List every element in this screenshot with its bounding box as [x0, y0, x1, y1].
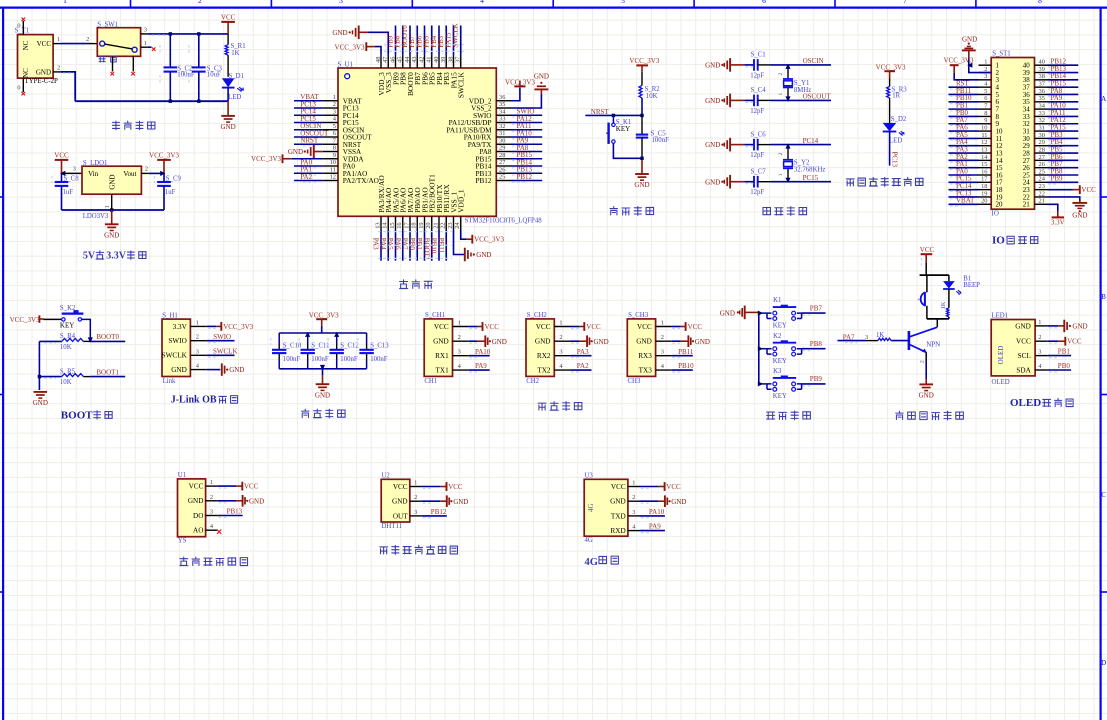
svg-text:GND: GND	[315, 391, 330, 399]
wire net PA8	[511, 151, 542, 153]
svg-text:12: 12	[330, 174, 336, 181]
capacitor C10 filter	[278, 333, 280, 344]
wire net PB10 io	[949, 101, 979, 103]
svg-text:19: 19	[981, 190, 987, 197]
svg-text:3: 3	[333, 108, 336, 115]
svg-text:NC: NC	[22, 68, 30, 78]
svg-text:1uF: 1uF	[63, 189, 74, 196]
pin T1 top shield	[22, 21, 24, 35]
svg-text:PA4: PA4	[379, 238, 387, 250]
svg-text:1: 1	[57, 36, 60, 43]
svg-text:3: 3	[210, 509, 213, 516]
svg-text:NRST: NRST	[300, 137, 319, 145]
svg-text:PB8: PB8	[810, 340, 823, 348]
module U1 pin 3 DO	[206, 515, 218, 517]
wire net PA10 io	[1048, 108, 1079, 110]
svg-text:3: 3	[984, 73, 987, 80]
mcu pin 31 PA10/RX	[496, 136, 511, 138]
header pin 22	[1035, 196, 1048, 198]
wire alarm bottom rail	[927, 318, 949, 320]
svg-text:GND: GND	[221, 123, 236, 131]
svg-text:12pF: 12pF	[750, 108, 764, 115]
wire SWIO jlink	[207, 340, 235, 342]
wire net PA15 io	[1048, 130, 1079, 132]
wire net PB4 io	[1048, 145, 1079, 147]
wire U3 vcc	[640, 486, 659, 488]
svg-text:2: 2	[198, 0, 202, 5]
display pin 3 SCL	[1035, 355, 1048, 357]
pin T1 bottom shield	[22, 78, 24, 92]
svg-text:27: 27	[499, 159, 506, 166]
capacitor C13 filter	[366, 333, 368, 344]
power port VCC top	[221, 21, 235, 23]
module U1 body	[178, 479, 206, 537]
mcu pin 6 OSCOUT	[323, 136, 338, 138]
header H1 body	[162, 319, 190, 376]
title chuan-kou-dian-lu	[538, 403, 546, 410]
display pin 4 SDA	[1035, 369, 1048, 371]
header H1 pin 3 SWCLK	[190, 354, 206, 356]
svg-text:13: 13	[374, 222, 381, 228]
svg-text:VCC: VCC	[221, 13, 236, 21]
wire SWCLK jlink	[207, 354, 235, 356]
header pin 18	[979, 189, 992, 191]
wire net PC14 io	[949, 189, 979, 191]
svg-text:100nF: 100nF	[311, 356, 329, 363]
svg-text:8MHz: 8MHz	[794, 87, 811, 94]
wire vout to vcc3v3	[149, 172, 164, 174]
wire net PA1 io	[949, 167, 979, 169]
wire net NRST	[294, 143, 323, 145]
mcu pin 48 VDD_3	[380, 55, 382, 68]
wire net PB0 bottom	[416, 230, 418, 261]
svg-text:5: 5	[621, 0, 625, 5]
wire net PA5 bottom	[395, 230, 397, 261]
ground GND filter	[316, 383, 330, 385]
capacitor C5	[641, 115, 643, 134]
svg-text:41: 41	[426, 57, 433, 63]
svg-text:16: 16	[396, 222, 403, 228]
svg-text:S_R5: S_R5	[60, 369, 76, 376]
wire res to base	[891, 340, 909, 342]
svg-text:8: 8	[333, 145, 336, 152]
power VCC CH1	[482, 322, 484, 331]
wire gnd jlink	[207, 369, 221, 371]
svg-text:U2: U2	[382, 473, 391, 480]
svg-text:9: 9	[333, 152, 336, 159]
ground GND mcu VSSA	[315, 151, 323, 153]
mcu U1 STM32F103C8T6 body	[338, 68, 496, 216]
mcu pin 15 PA5/AO	[395, 216, 397, 230]
svg-text:8: 8	[1038, 0, 1042, 5]
svg-text:29: 29	[499, 145, 505, 152]
wire bus to K3	[759, 383, 767, 385]
svg-text:TYPE-C-2P: TYPE-C-2P	[25, 78, 58, 85]
svg-text:15: 15	[981, 161, 987, 168]
svg-text:SWCLK: SWCLK	[452, 23, 460, 48]
title cheng-xu-yun-xing-zhi-shi-deng	[846, 179, 854, 186]
svg-text:VCC_3V3: VCC_3V3	[309, 311, 339, 319]
svg-text:BEEP: BEEP	[963, 282, 980, 289]
junction vcc-c8	[60, 171, 65, 176]
svg-text:TXD: TXD	[611, 512, 626, 520]
svg-text:2: 2	[1038, 334, 1041, 341]
svg-text:U3: U3	[585, 473, 594, 480]
capacitor C3	[198, 34, 200, 67]
wire CH2 rx PA3	[571, 355, 592, 357]
svg-text:21: 21	[432, 222, 439, 228]
svg-text:PB0: PB0	[1058, 362, 1071, 370]
wire U1 gnd	[217, 500, 236, 502]
svg-text:1K: 1K	[940, 301, 947, 309]
header CH3 pin 3 RX3	[656, 355, 672, 357]
title zhu-xin-pian	[399, 280, 407, 289]
sheet border right	[1099, 8, 1101, 720]
wire net PC13 io	[949, 196, 979, 198]
junction vout-c9	[160, 171, 165, 176]
svg-text:27: 27	[1039, 154, 1046, 161]
ground GND mcu VSS_1	[454, 230, 465, 255]
mcu pin 16 PA6/AO	[402, 216, 404, 230]
wire net PB1 io	[949, 108, 979, 110]
svg-text:1K: 1K	[876, 332, 884, 339]
svg-text:12pF: 12pF	[750, 152, 764, 159]
header pin 40	[1035, 64, 1048, 66]
wire net VBAT io	[949, 203, 979, 205]
wire net PA2	[294, 180, 323, 182]
wire net VBAT	[294, 100, 323, 102]
svg-text:100nF: 100nF	[370, 356, 388, 363]
svg-text:10: 10	[330, 159, 336, 166]
junction nrst-r2	[640, 114, 643, 117]
svg-text:GND: GND	[695, 338, 710, 346]
header CH3 pin 2 GND	[656, 340, 672, 342]
wire net PB8 io	[1048, 174, 1079, 176]
svg-text:1: 1	[333, 94, 336, 101]
wire bottom bus power	[75, 100, 228, 102]
svg-text:CH3: CH3	[628, 378, 641, 385]
svg-text:OLED: OLED	[992, 379, 1010, 386]
svg-text:S_C4: S_C4	[751, 87, 767, 94]
svg-text:100nF: 100nF	[652, 137, 670, 144]
svg-text:2: 2	[210, 494, 213, 501]
power 3.3V io pin21	[1048, 204, 1058, 211]
svg-text:PA2/TX/AO: PA2/TX/AO	[343, 177, 379, 185]
wire U1 vcc	[217, 485, 236, 487]
svg-text:TX1: TX1	[436, 367, 450, 375]
svg-text:PB12: PB12	[431, 508, 447, 516]
svg-text:A: A	[1101, 95, 1106, 103]
wire net PA11	[511, 129, 542, 131]
svg-text:PA7: PA7	[401, 238, 409, 250]
svg-text:36: 36	[499, 94, 505, 101]
svg-text:2: 2	[196, 334, 199, 341]
header CH3 body	[627, 319, 655, 377]
svg-text:38: 38	[1039, 73, 1045, 80]
svg-text:IO: IO	[992, 235, 1005, 247]
mcu pin 30 PA9/TX	[496, 143, 511, 145]
svg-text:OLED: OLED	[1010, 397, 1041, 409]
header pin 19	[979, 196, 992, 198]
wire net PB15 io	[1048, 86, 1079, 88]
svg-text:S_C8: S_C8	[64, 176, 80, 183]
svg-text:D: D	[1101, 659, 1106, 667]
svg-text:10K: 10K	[60, 344, 72, 351]
wire T1 GND down to bottom bus	[60, 72, 75, 101]
header ST1 body	[991, 58, 1034, 210]
wire D1 to GND	[227, 88, 229, 102]
svg-text:39: 39	[440, 57, 447, 63]
wire CH3 gnd	[672, 340, 681, 342]
wire net PA4 io	[949, 145, 979, 147]
svg-text:46: 46	[389, 57, 396, 63]
svg-text:KEY: KEY	[773, 322, 787, 329]
svg-text:11: 11	[330, 166, 336, 173]
svg-text:37: 37	[1039, 81, 1046, 88]
wire NRST	[585, 114, 642, 116]
svg-text:13: 13	[981, 146, 987, 153]
power VCC_3V3 jlink	[220, 322, 222, 331]
wire U3 PA9	[640, 530, 665, 532]
wire oled vcc	[1048, 340, 1058, 342]
wire U2 vcc	[421, 486, 440, 488]
svg-text:VCC: VCC	[393, 483, 408, 491]
svg-text:GND: GND	[720, 309, 735, 317]
wire net PA12	[511, 122, 542, 124]
svg-text:1R: 1R	[892, 93, 900, 100]
module U3 pin 2 GND	[628, 500, 640, 502]
wire net PB3 io	[1048, 137, 1079, 139]
header CH2 pin 4 TX2	[554, 369, 570, 371]
svg-text:18: 18	[411, 222, 418, 228]
svg-text:3.3V: 3.3V	[1051, 218, 1065, 226]
wire U3 PA10	[640, 515, 665, 517]
svg-text:SCL: SCL	[1018, 352, 1031, 360]
svg-text:VCC: VCC	[1081, 186, 1096, 194]
pin T1 2 GND	[53, 71, 60, 73]
svg-text:SWCLK: SWCLK	[457, 72, 466, 99]
wire net PB5 top	[431, 26, 433, 55]
junction c5-gnd	[640, 157, 643, 160]
wire net PC15	[294, 122, 323, 124]
header CH2 pin 2 GND	[554, 340, 570, 342]
svg-text:17: 17	[981, 176, 988, 183]
power VCC U1	[241, 482, 243, 491]
module U3 pin 4 RXD	[628, 530, 640, 532]
svg-text:GND: GND	[36, 69, 51, 77]
wire net PB8 top	[402, 26, 404, 55]
wire C4 to OSCOUT	[771, 99, 832, 101]
wire net PA6 bottom	[402, 230, 404, 261]
wire oled sda PB0	[1048, 369, 1071, 371]
junction bus-r5	[38, 375, 41, 378]
wire gnd to key bus	[745, 311, 759, 313]
crystal Y1 8MHz	[787, 65, 789, 78]
wire net PA7 io	[949, 123, 979, 125]
svg-text:2: 2	[559, 334, 562, 341]
resistor R1	[227, 34, 229, 45]
resistor R5	[39, 376, 61, 378]
header pin 7	[979, 108, 992, 110]
junction ldo gnd	[110, 208, 113, 211]
svg-text:GND: GND	[671, 498, 686, 506]
title an-jian-dian-lu	[767, 412, 775, 419]
svg-text:1: 1	[1038, 319, 1041, 326]
mcu pin 33 PA12/USB/DP	[496, 122, 511, 124]
wire alarm top rail	[920, 274, 949, 276]
wire BOOT1	[90, 376, 125, 378]
title yu-shui-jian-ce-mo-kuai	[180, 557, 188, 566]
wire BOOT0	[90, 340, 125, 342]
no-connect U1 pin4	[217, 530, 221, 534]
LED D1	[222, 78, 235, 87]
capacitor C2	[169, 34, 171, 67]
no-connect x SW1 1	[152, 47, 156, 51]
mcu pin 29 PA8	[496, 151, 511, 153]
svg-text:5: 5	[333, 123, 336, 130]
svg-text:CH1: CH1	[424, 378, 437, 385]
header pin 35	[1035, 101, 1048, 103]
header pin 28	[1035, 152, 1048, 154]
display pin 1 GND	[1035, 325, 1048, 327]
svg-text:GND: GND	[534, 72, 549, 80]
svg-text:Link: Link	[163, 378, 176, 385]
transistor Q1 NPN	[908, 331, 911, 350]
svg-text:3.3V: 3.3V	[173, 323, 188, 331]
header CH1 pin 4 TX1	[453, 369, 469, 371]
wire net PB14	[511, 165, 542, 167]
svg-text:33: 33	[499, 116, 505, 123]
wire net PC14	[294, 114, 323, 116]
svg-text:40: 40	[1039, 59, 1045, 66]
svg-text:VCC_3V3: VCC_3V3	[629, 57, 659, 65]
svg-text:VCC_3V3: VCC_3V3	[944, 57, 974, 65]
ground GND CH3	[687, 335, 689, 347]
svg-text:CH2: CH2	[526, 378, 539, 385]
wire rail to collector	[936, 319, 938, 327]
header pin 15	[979, 167, 992, 169]
svg-text:1: 1	[778, 173, 784, 176]
wire CH1 vcc	[469, 326, 478, 328]
pin T1 1 VCC	[53, 43, 60, 45]
svg-text:3: 3	[1038, 349, 1041, 356]
svg-text:12: 12	[981, 139, 987, 146]
header pin 32	[1035, 123, 1048, 125]
buzzer	[926, 275, 928, 292]
wire net PB13	[511, 172, 542, 174]
mcu pin 35 VSS_2	[496, 107, 511, 109]
LED B1 BEEP	[948, 275, 950, 281]
wire h1 vcc3v3	[207, 325, 216, 327]
svg-text:1: 1	[632, 480, 635, 487]
capacitor C12 filter	[336, 333, 338, 344]
mcu pin 7 NRST	[323, 143, 338, 145]
mcu pin 38 PA15	[453, 55, 455, 68]
svg-text:VCC_3V3: VCC_3V3	[474, 236, 504, 244]
svg-text:OUT: OUT	[393, 512, 408, 520]
sheet zone ticks left	[0, 196, 3, 198]
wire net PB10 bottom	[438, 230, 440, 261]
svg-text:TX3: TX3	[639, 367, 653, 375]
wire gnd to C4	[730, 99, 744, 101]
power VCC_3V3 mcu VDD_1	[461, 230, 466, 239]
header pin 30	[1035, 137, 1048, 139]
svg-text:19: 19	[418, 222, 425, 228]
wire net PB3 top	[445, 26, 447, 55]
svg-text:KEY: KEY	[616, 125, 630, 133]
svg-text:10uF: 10uF	[207, 72, 221, 79]
svg-text:10: 10	[981, 124, 987, 131]
wire CH1 tx PA9	[469, 369, 490, 371]
svg-text:VCC_3V3: VCC_3V3	[335, 43, 365, 51]
svg-text:23: 23	[447, 222, 454, 228]
svg-text:S_C13: S_C13	[370, 342, 389, 349]
wire net PB9 top	[395, 26, 397, 55]
header pin 29	[1035, 145, 1048, 147]
mcu pin 32 PA11/USB/DM	[496, 129, 511, 131]
header pin 10	[979, 130, 992, 132]
svg-text:2: 2	[778, 73, 784, 76]
wire U1 PB13	[217, 515, 242, 517]
svg-text:GND: GND	[229, 366, 244, 374]
ground GND alarm	[919, 383, 933, 385]
wire net PA11 io	[1048, 115, 1079, 117]
wire net PB14 io	[1048, 79, 1079, 81]
header pin 20	[979, 203, 992, 205]
header CH3 pin 1 VCC	[656, 326, 672, 328]
svg-text:3: 3	[559, 349, 562, 356]
svg-text:PC13: PC13	[891, 152, 899, 168]
wire T1 VCC to SW1	[60, 43, 89, 45]
svg-text:S_C12: S_C12	[340, 342, 359, 349]
svg-text:34: 34	[499, 108, 506, 115]
ground GND mcu VSS_3	[368, 32, 388, 55]
no-connect x SW1 a	[111, 72, 115, 76]
svg-text:10K: 10K	[646, 93, 658, 100]
sheet border top	[0, 6, 1107, 8]
title jing-zhen-dian-lu	[763, 208, 771, 215]
svg-text:11: 11	[981, 132, 987, 139]
mcu pin 5 OSCIN	[323, 129, 338, 131]
mcu pin 1 VBAT	[323, 100, 338, 102]
svg-text:6: 6	[984, 95, 987, 102]
svg-text:10K: 10K	[60, 379, 72, 386]
module U2 body	[381, 479, 410, 522]
svg-text:BOOT1: BOOT1	[422, 238, 430, 261]
wire CH2 vcc	[571, 326, 580, 328]
wire D2 to PC13	[889, 132, 891, 166]
header pin 12	[979, 145, 992, 147]
pin LDO1 2 vout	[141, 172, 148, 174]
header CH2 pin 3 RX2	[554, 355, 570, 357]
header CH1 pin 2 GND	[453, 340, 469, 342]
push button K2 KEY	[44, 318, 62, 320]
svg-text:8: 8	[984, 110, 987, 117]
junction C3 top	[197, 32, 200, 35]
wire emitter to gnd	[925, 352, 927, 361]
svg-text:GND: GND	[332, 29, 347, 37]
svg-text:VCC: VCC	[1016, 338, 1031, 346]
crystal Y2 32.768KHz	[787, 145, 789, 159]
mcu pin 10 PA0	[323, 165, 338, 167]
wire net PA8 io	[1048, 93, 1079, 95]
svg-text:PB9: PB9	[1051, 175, 1064, 183]
svg-text:YS: YS	[178, 538, 187, 545]
wire bus to K1	[759, 312, 767, 314]
svg-text:SWCLK: SWCLK	[162, 352, 188, 360]
header pin 34	[1035, 108, 1048, 110]
svg-text:SWIO: SWIO	[213, 333, 231, 341]
